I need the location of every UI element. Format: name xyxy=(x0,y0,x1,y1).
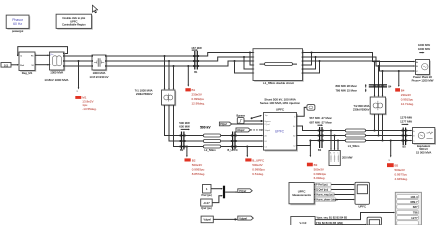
wire machine m feedback to Reg_M1 xyxy=(17,47,68,57)
svg-text:B3: B3 xyxy=(314,163,318,167)
label B5 (red measurement) xyxy=(387,163,408,181)
svg-text:6.03deg.: 6.03deg. xyxy=(314,176,326,180)
svg-text:C2: C2 xyxy=(293,146,295,148)
wire Tr2 to 500kV wire C xyxy=(381,114,383,142)
label 1000 MW flows xyxy=(418,43,430,53)
svg-text:1000 MW: 1000 MW xyxy=(418,47,430,51)
svg-text:Vpos. seq. B1 B2 B3 B4 B5: Vpos. seq. B1 B2 B3 B4 B5 xyxy=(317,216,348,219)
svg-text:687 MW -27 Mvar: 687 MW -27 Mvar xyxy=(310,120,332,124)
svg-text:Controllable Region: Controllable Region xyxy=(62,23,86,27)
wire B5 to equivalent B xyxy=(407,135,413,137)
svg-text:Vdqref: Vdqref xyxy=(204,219,212,222)
svg-text:A2: A2 xyxy=(293,125,295,128)
svg-text:Vdqref: Vdqref xyxy=(237,129,245,132)
wire B_UPFC to UPFC A1 xyxy=(236,135,264,137)
line L2_50km xyxy=(185,134,232,152)
node taps to Tr1 xyxy=(163,55,174,90)
svg-text:P B1 B2 B3 B4 B5 (MW): P B1 B2 B3 B4 B5 (MW) xyxy=(316,222,343,225)
svg-text:0.9915pu: 0.9915pu xyxy=(401,97,414,101)
svg-text:Qref (pu): Qref (pu) xyxy=(201,206,212,210)
wire meas out1 to scope xyxy=(314,184,355,186)
svg-text:A1: A1 xyxy=(265,135,267,138)
svg-text:1277 MW: 1277 MW xyxy=(400,119,412,123)
wire machine phase A to transformer xyxy=(64,55,92,57)
double-click annotation block xyxy=(56,14,93,29)
svg-text:Vdqref: Vdqref xyxy=(239,216,247,220)
svg-text:0.9977pu: 0.9977pu xyxy=(395,172,408,176)
wire L1 out6 merge xyxy=(303,60,321,73)
node B1 measurement tap xyxy=(187,65,189,87)
bus B4 xyxy=(369,85,392,89)
scope2 xyxy=(367,217,381,225)
svg-text:600 MW: 600 MW xyxy=(179,125,190,129)
wire UPFC C2 to B3 xyxy=(297,140,320,146)
wire meas out2 to scope xyxy=(314,189,355,191)
svg-text:196.4: 196.4 xyxy=(410,195,418,199)
svg-text:Pnom= 1200 MW: Pnom= 1200 MW xyxy=(412,79,434,83)
svg-text:0.9994pu: 0.9994pu xyxy=(314,172,327,176)
svg-text:B4: B4 xyxy=(401,88,405,92)
wire B_UPFC to UPFC B1 xyxy=(236,140,264,142)
label B3 (red measurement) xyxy=(307,163,327,181)
wire Reg_M1 Vf to machine xyxy=(35,64,50,66)
wire B1 to L1 port3 xyxy=(198,61,253,66)
svg-text:B2: B2 xyxy=(180,148,184,152)
svg-text:12.99deg.: 12.99deg. xyxy=(192,102,206,106)
label M1 (red measurement) xyxy=(75,96,97,111)
svg-text:B1: B1 xyxy=(192,88,196,92)
node taps to Tr2 xyxy=(373,60,383,97)
wire machine phase B to transformer xyxy=(64,60,92,62)
bus B3 xyxy=(318,127,324,152)
svg-text:L2_50km: L2_50km xyxy=(204,148,216,152)
wire UPFC m to goto xyxy=(297,107,307,117)
constant 0.5 xyxy=(1,63,11,68)
svg-text:-0.27: -0.27 xyxy=(203,201,210,205)
annotation shunt/series xyxy=(260,97,300,105)
wire branch to L1 port6 xyxy=(233,60,253,73)
wire Tr1 down to B2 phase B xyxy=(169,105,181,142)
node B_UPFC measurement tap xyxy=(246,145,248,157)
wire B1 to L1 port2 xyxy=(198,57,253,61)
scope UPFC xyxy=(355,182,369,208)
svg-text:UPFC: UPFC xyxy=(275,129,285,133)
svg-text:B_UPFC: B_UPFC xyxy=(228,148,238,152)
svg-text:Reg_M1: Reg_M1 xyxy=(22,71,33,75)
machine M1 1000 MVA xyxy=(49,52,65,74)
svg-text:Vconv_mag (pu): Vconv_mag (pu) xyxy=(316,194,334,197)
svg-text:0.9993pu: 0.9993pu xyxy=(192,167,205,171)
node B2 measurement tap xyxy=(186,145,188,157)
node taps to load xyxy=(330,129,339,150)
label 500/600 MW flows xyxy=(179,121,190,130)
svg-text:1277: 1277 xyxy=(411,216,418,220)
wire Qref to mux xyxy=(212,195,223,203)
svg-text:B_UPFC: B_UPFC xyxy=(252,158,265,162)
UPFC measurements block xyxy=(289,183,316,206)
wire branch to L1 port4 xyxy=(249,51,253,65)
svg-text:689.7: 689.7 xyxy=(410,200,418,204)
wire L1 out1 to plant2 phase A xyxy=(303,53,416,63)
measurements block2 xyxy=(291,217,315,229)
svg-text:500e3V: 500e3V xyxy=(192,163,202,167)
svg-text:500e3V: 500e3V xyxy=(252,163,262,167)
svg-text:796: 796 xyxy=(413,211,418,215)
svg-text:Vdqref: Vdqref xyxy=(265,129,271,132)
constant Pref xyxy=(201,185,212,198)
svg-text:13.8kV 1000 MVA: 13.8kV 1000 MVA xyxy=(44,78,68,82)
wire Bypass to UPFC xyxy=(244,120,264,122)
wire PQref to UPFC xyxy=(232,123,264,125)
display block xyxy=(395,192,421,225)
regulator Reg_M1 xyxy=(19,52,36,75)
wire Trip stub xyxy=(251,115,262,119)
label B_UPFC (red measurement) xyxy=(245,158,265,176)
svg-text:Series 100 MVA,10% injection: Series 100 MVA,10% injection xyxy=(260,101,300,105)
signal label P Pref xyxy=(315,183,331,187)
wire meas out4 to scope xyxy=(314,199,355,201)
svg-text:200 MW: 200 MW xyxy=(342,155,353,159)
signal label Q Qref xyxy=(315,188,331,192)
wire B5 to equivalent A xyxy=(407,130,413,132)
signal label Vconv_phase xyxy=(315,198,337,202)
label B4 (red measurement) xyxy=(395,88,414,106)
svg-text:230e3V: 230e3V xyxy=(401,93,411,97)
svg-text:Pref (pu): Pref (pu) xyxy=(201,193,212,197)
signal label Vconv_mag xyxy=(315,193,334,197)
svg-text:Pm: Pm xyxy=(50,54,53,56)
svg-text:L1_65km double circuit: L1_65km double circuit xyxy=(263,81,294,85)
svg-text:B4: B4 xyxy=(388,85,392,89)
transformer Tr2 xyxy=(353,97,387,115)
wire transformer to bus B1 phase A xyxy=(106,55,194,57)
wire L1 out2 to plant2 phase B xyxy=(303,57,416,67)
svg-text:0.9992pu: 0.9992pu xyxy=(192,97,205,101)
svg-text:UPFC: UPFC xyxy=(358,205,366,209)
wire Tr1 down to B2 phase C xyxy=(174,105,182,147)
svg-text:V-I b3: V-I b3 xyxy=(300,221,307,225)
wire B_UPFC to UPFC C1 xyxy=(236,146,264,148)
svg-text:-13.55deg.: -13.55deg. xyxy=(82,107,97,111)
svg-text:4.945deg.: 4.945deg. xyxy=(395,177,409,181)
svg-text:1000 MVA: 1000 MVA xyxy=(50,70,63,74)
wire block2 out2 to scope2 xyxy=(315,224,367,226)
wire Tr2 to 500kV wire A xyxy=(373,114,375,132)
svg-text:Trip: Trip xyxy=(265,114,268,117)
step source Bypass xyxy=(236,114,245,124)
bus B2 xyxy=(180,132,186,152)
wire Tr2 to 500kV wire B xyxy=(377,114,379,137)
wire machine phase C to transformer xyxy=(64,65,92,67)
wire Reg_M1 Pm to machine xyxy=(35,55,50,57)
line L3_50km wires xyxy=(323,129,402,148)
mouse cursor xyxy=(93,5,98,13)
svg-text:L3_50km: L3_50km xyxy=(348,144,360,148)
svg-text:Measurements: Measurements xyxy=(292,193,311,197)
transformer Tr1 xyxy=(135,89,176,107)
svg-text:m: m xyxy=(388,160,390,162)
svg-text:B1: B1 xyxy=(265,141,267,143)
wire mux to PQref goto xyxy=(225,191,238,193)
svg-text:PQref: PQref xyxy=(239,189,246,193)
bus B1 xyxy=(193,51,200,74)
svg-text:13.8 kV/230 kV: 13.8 kV/230 kV xyxy=(90,75,109,79)
svg-text:powergui: powergui xyxy=(12,29,24,33)
svg-text:15 000 MVA: 15 000 MVA xyxy=(416,151,431,155)
wire transformer to bus B1 phase C xyxy=(106,65,194,67)
goto tag m xyxy=(307,105,315,111)
from tag Vdqref xyxy=(236,128,251,132)
label B1 (red measurement) xyxy=(185,88,205,106)
wire UPFC A2 to B3 xyxy=(297,126,320,131)
svg-text:6.51deg.: 6.51deg. xyxy=(252,172,264,176)
transformer 13.8kV/230kV xyxy=(90,55,109,79)
power plant #2 xyxy=(412,60,434,83)
svg-text:500e3V: 500e3V xyxy=(314,167,324,171)
wire Tr1 down to B2 phase A xyxy=(165,105,182,136)
wire transformer to bus B1 phase B xyxy=(106,60,194,62)
label 567/687 MW flows xyxy=(310,116,332,126)
wire Vdqref to goto xyxy=(213,218,238,220)
svg-text:0.9995pu: 0.9995pu xyxy=(252,167,265,171)
wire branch to L1 port5 xyxy=(243,56,253,69)
wire meas out3 to scope xyxy=(314,194,355,196)
label 800 MW flows xyxy=(336,84,367,93)
svg-text:500 kV: 500 kV xyxy=(200,125,211,129)
mux xyxy=(223,186,225,199)
svg-text:60 Hz: 60 Hz xyxy=(13,22,22,26)
svg-text:14.71deg.: 14.71deg. xyxy=(401,102,415,106)
node B3 measurement tap xyxy=(309,139,311,157)
svg-text:Q Qref (pu): Q Qref (pu) xyxy=(316,189,328,192)
wire Pref to mux xyxy=(211,188,223,190)
svg-text:0.5: 0.5 xyxy=(4,63,9,67)
svg-text:230e3V: 230e3V xyxy=(192,93,202,97)
label 1279 MW flows xyxy=(400,116,412,126)
svg-text:B5: B5 xyxy=(395,164,399,168)
wire L1 out4 merge xyxy=(303,51,313,65)
wire L1 out3 to plant2 phase C xyxy=(303,61,416,72)
constant Qref xyxy=(201,199,213,210)
svg-text:B3: B3 xyxy=(318,148,322,152)
svg-text:Bypass: Bypass xyxy=(236,114,245,118)
svg-text:500e3V: 500e3V xyxy=(395,168,405,172)
wire B1 to L1 port1 xyxy=(198,53,253,57)
svg-text:786 MW 15 Mvar: 786 MW 15 Mvar xyxy=(336,89,357,93)
line L1 65km double circuit xyxy=(253,49,304,85)
goto tag Vdqref xyxy=(238,216,254,220)
svg-text:m: m xyxy=(76,91,78,93)
svg-text:Vconv_phase (deg.): Vconv_phase (deg.) xyxy=(316,199,338,202)
load 200 MW xyxy=(329,151,353,166)
wire UPFC B2 to B3 xyxy=(297,135,320,137)
label B2 (red measurement) xyxy=(185,158,206,176)
source equivalent 500kV xyxy=(413,128,437,155)
from tag PQref xyxy=(219,122,231,126)
svg-text:B2: B2 xyxy=(293,136,295,138)
node B4 measurement tap xyxy=(398,70,400,87)
UPFC block xyxy=(264,107,298,151)
svg-text:B1: B1 xyxy=(194,70,198,74)
svg-text:B2: B2 xyxy=(192,158,196,162)
bus B_UPFC xyxy=(228,132,238,152)
node M1 measurement tap xyxy=(76,60,79,93)
label 167 MW flow xyxy=(191,46,202,51)
svg-text:Pref: Pref xyxy=(20,65,24,67)
node B5 measurement tap xyxy=(388,139,391,162)
wire L1 out5 merge xyxy=(303,56,317,69)
svg-text:167 MW: 167 MW xyxy=(191,46,202,50)
powergui block xyxy=(6,15,30,33)
svg-text:P Pref (pu): P Pref (pu) xyxy=(316,184,328,187)
wire 0.5 to Reg_M1 xyxy=(11,64,19,66)
goto tag PQref xyxy=(238,189,252,193)
svg-text:PQref: PQref xyxy=(220,123,227,126)
svg-text:UPFC: UPFC xyxy=(276,107,285,111)
svg-text:687: 687 xyxy=(413,205,418,209)
wire B5 to equivalent C xyxy=(407,140,413,142)
bus B5 xyxy=(401,128,407,149)
svg-text:230kV/500kV: 230kV/500kV xyxy=(353,108,370,112)
svg-text:PQref: PQref xyxy=(265,123,270,126)
svg-text:B5: B5 xyxy=(403,145,407,149)
wire Vdqref to UPFC (dashed) xyxy=(251,129,264,131)
svg-text:8.857deg.: 8.857deg. xyxy=(192,172,206,176)
svg-text:230kV/500kV: 230kV/500kV xyxy=(136,92,153,96)
svg-text:Bypass: Bypass xyxy=(265,121,271,123)
svg-text:C1: C1 xyxy=(265,147,267,149)
source Vdqref xyxy=(201,216,213,223)
wire block2 out1 to display xyxy=(315,212,395,220)
